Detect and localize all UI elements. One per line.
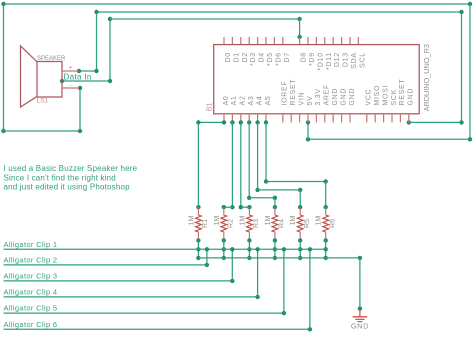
node junction A5 pin xyxy=(264,120,268,124)
node junction A3 pin xyxy=(247,120,251,124)
node junction R6 gnd bus xyxy=(324,256,328,260)
svg-text:Alligator Clip 3: Alligator Clip 3 xyxy=(4,271,58,280)
speaker LS1 body xyxy=(21,46,38,107)
wire clip 4 riser xyxy=(257,249,259,297)
node junction A0 pin xyxy=(222,120,226,124)
svg-text:Alligator Clip 6: Alligator Clip 6 xyxy=(4,320,58,329)
wire R6 bottom to gnd bus xyxy=(325,240,327,258)
wire 5V horizontal to right xyxy=(308,138,470,140)
svg-text:*D9: *D9 xyxy=(309,52,316,66)
svg-text:*D3: *D3 xyxy=(250,52,257,66)
wire A4 drop2 to R5 xyxy=(299,190,301,207)
svg-text:Alligator Clip 4: Alligator Clip 4 xyxy=(4,287,58,296)
node junction gnd bus corner xyxy=(358,256,362,260)
node junction A2 pin xyxy=(239,120,243,124)
svg-text:AREF: AREF xyxy=(324,84,331,105)
wire A5 drop xyxy=(265,122,267,181)
node junction 5V pin xyxy=(306,120,310,124)
wire Data In horizontal from speaker xyxy=(62,80,110,82)
svg-text:+: + xyxy=(69,66,73,72)
node junction A3 jog corner1 xyxy=(247,196,251,200)
svg-text:GND: GND xyxy=(351,321,369,330)
svg-text:*D11: *D11 xyxy=(326,52,333,70)
wire A4 drop xyxy=(257,122,259,189)
svg-text:I used a Basic Buzzer Speaker: I used a Basic Buzzer Speaker here xyxy=(4,164,138,173)
wire R1 bottom to gnd bus xyxy=(197,240,199,258)
svg-text:SPEAKER: SPEAKER xyxy=(37,56,66,62)
svg-text:D0: D0 xyxy=(225,52,232,62)
wire alligator clip 2 line xyxy=(4,264,207,266)
node junction speaker plus pin xyxy=(77,69,81,73)
arduino bottom pin stubs A0-GND xyxy=(223,114,225,123)
node junction clip 6 riser top xyxy=(308,247,312,251)
node junction clip 5 end xyxy=(282,311,286,315)
node junction speaker-minus drop xyxy=(78,129,82,133)
svg-text:MISO: MISO xyxy=(374,85,381,106)
wire A4 jog xyxy=(258,189,301,191)
node junction A4 jog corner1 xyxy=(255,188,259,192)
svg-text:A0: A0 xyxy=(223,96,230,106)
node junction top-left xyxy=(1,2,5,6)
wire A2 drop xyxy=(240,122,242,207)
svg-text:SCL: SCL xyxy=(359,52,366,68)
wire A3 jog xyxy=(249,197,275,199)
svg-text:GND: GND xyxy=(408,88,415,106)
svg-text:A5: A5 xyxy=(265,96,272,106)
svg-text:D12: D12 xyxy=(334,52,341,67)
node junction clip 3 riser top xyxy=(230,247,234,251)
wire clip 2 riser xyxy=(206,249,208,265)
svg-text:VCC: VCC xyxy=(366,89,373,106)
wire A3 drop2 to R4 xyxy=(274,198,276,207)
svg-text:R4: R4 xyxy=(279,219,286,228)
svg-text:D2: D2 xyxy=(242,52,249,62)
resistor R1 xyxy=(196,205,200,209)
wire A5 drop2 to R6 xyxy=(325,182,327,208)
node junction A5 jog corner1 xyxy=(264,179,268,183)
svg-text:SDA: SDA xyxy=(351,52,358,68)
node junction top-right xyxy=(468,2,472,6)
wire Data In vertical xyxy=(109,19,111,81)
wire alligator clip 6 line xyxy=(4,328,310,330)
svg-text:and just edited it using Photo: and just edited it using Photoshop xyxy=(4,183,131,192)
svg-text:*D5: *D5 xyxy=(267,52,274,66)
wire net2 right vertical xyxy=(461,12,463,122)
wire clip 5 riser xyxy=(283,249,285,313)
wire R3 bottom to gnd bus xyxy=(248,240,250,258)
wire A1 jog to R2 xyxy=(224,206,233,208)
svg-text:A3: A3 xyxy=(248,96,255,106)
ground xyxy=(359,309,361,317)
node junction A1 pin xyxy=(230,120,234,124)
resistor R2 xyxy=(222,205,226,209)
wire clip 3 riser xyxy=(231,249,233,281)
node junction A4 pin xyxy=(255,120,259,124)
node junction A2 drop corner xyxy=(239,205,243,209)
wire clip 6 riser xyxy=(309,249,311,329)
wire net1 right vertical xyxy=(469,4,471,139)
node junction speaker plus corner xyxy=(94,69,98,73)
node junction R4 clip bus xyxy=(273,247,277,251)
svg-text:A2: A2 xyxy=(240,96,247,106)
node junction R2 gnd bus xyxy=(222,256,226,260)
node junction A1 drop corner xyxy=(230,205,234,209)
node junction right-bottom corner xyxy=(468,137,472,141)
svg-text:R3: R3 xyxy=(253,219,260,228)
svg-text:*D6: *D6 xyxy=(275,52,282,66)
wire A0 jog xyxy=(198,121,224,123)
wire alligator clip 3 line xyxy=(4,280,233,282)
svg-text:GND: GND xyxy=(349,88,356,106)
svg-text:Since I can't find the right k: Since I can't find the right kind xyxy=(4,173,116,182)
wire alligator clip 1 line xyxy=(4,248,326,250)
resistor R6 xyxy=(324,205,328,209)
svg-text:IOREF: IOREF xyxy=(282,81,289,106)
svg-text:VIN: VIN xyxy=(298,92,305,106)
node junction R5 clip bus xyxy=(298,247,302,251)
wire R4 bottom to gnd bus xyxy=(274,240,276,258)
svg-text:MOSI: MOSI xyxy=(382,85,389,106)
svg-text:A4: A4 xyxy=(256,96,263,106)
svg-text:1M: 1M xyxy=(290,215,297,225)
speaker pin - stub xyxy=(62,87,79,89)
svg-text:1M: 1M xyxy=(239,215,246,225)
wire speaker plus vertical xyxy=(96,12,98,71)
node junction A5 jog corner2 xyxy=(324,179,328,183)
svg-text:1M: 1M xyxy=(265,215,272,225)
svg-text:B1: B1 xyxy=(207,103,214,112)
svg-text:Alligator Clip 1: Alligator Clip 1 xyxy=(4,240,58,249)
node junction data-in at speaker xyxy=(60,79,64,83)
wire net2 second horizontal xyxy=(97,11,462,13)
wire GND pin horizontal xyxy=(409,121,462,123)
svg-text:D13: D13 xyxy=(343,52,350,67)
svg-text:LS1: LS1 xyxy=(37,98,49,105)
wire gnd bus vertical xyxy=(359,258,361,309)
node junction net2 bottom corner xyxy=(459,120,463,124)
node junction data-in corner3 xyxy=(297,17,301,21)
wire net1 left vertical xyxy=(3,4,5,131)
svg-text:SCK: SCK xyxy=(391,89,398,106)
node junction net2 left corner xyxy=(94,10,98,14)
node junction R1 gnd bus xyxy=(196,256,200,260)
wire A0 drop to R1 xyxy=(197,122,199,207)
node junction R2 clip bus xyxy=(222,247,226,251)
svg-text:R1: R1 xyxy=(202,219,209,228)
node junction clip 4 riser top xyxy=(255,247,259,251)
svg-text:GND: GND xyxy=(340,88,347,106)
wire alligator clip 4 line xyxy=(4,296,258,298)
svg-text:3.3V: 3.3V xyxy=(315,88,322,105)
svg-text:GND: GND xyxy=(332,88,339,106)
node junction net2 right corner xyxy=(459,10,463,14)
node junction D8 pin xyxy=(297,35,301,39)
node junction A4 jog corner2 xyxy=(298,188,302,192)
arduino top pin stubs D0-SCL xyxy=(223,37,225,45)
svg-text:Alligator Clip 2: Alligator Clip 2 xyxy=(4,255,58,264)
wire Data In horizontal to D8 xyxy=(110,18,300,20)
svg-text:1M: 1M xyxy=(316,215,323,225)
node junction clip 2 riser top xyxy=(205,247,209,251)
wire net1 top horizontal xyxy=(4,3,471,5)
svg-text:R5: R5 xyxy=(304,219,311,228)
svg-text:D7: D7 xyxy=(284,52,291,62)
node junction R4 gnd bus xyxy=(273,256,277,260)
node junction clip 4 end xyxy=(255,295,259,299)
resistor R3 xyxy=(247,205,251,209)
wire net1 bottom-left horizontal xyxy=(4,130,81,132)
wire R2 bottom to gnd bus xyxy=(223,240,225,258)
resistor R4 xyxy=(273,205,277,209)
wire A2 jog to R3 xyxy=(241,206,250,208)
node junction left-bottom corner xyxy=(1,129,5,133)
node junction clip 6 end xyxy=(308,327,312,331)
node junction R3 clip bus xyxy=(247,247,251,251)
node junction data-in corner2 xyxy=(108,17,112,21)
wire A5 jog xyxy=(266,181,326,183)
wire A1 drop xyxy=(231,122,233,207)
node junction R5 gnd bus xyxy=(298,256,302,260)
arduino module B1 outline xyxy=(214,45,420,114)
svg-text:A1: A1 xyxy=(231,96,238,106)
wire speaker minus vertical xyxy=(79,88,81,131)
svg-text:R2: R2 xyxy=(227,219,234,228)
svg-text:ARDUINO_UNO_R3: ARDUINO_UNO_R3 xyxy=(422,44,431,111)
node junction A3 jog corner2 xyxy=(273,196,277,200)
node junction R1 clip bus xyxy=(196,247,200,251)
node junction arduino GND pin xyxy=(407,120,411,124)
svg-text:5V: 5V xyxy=(307,96,314,106)
svg-text:Data In: Data In xyxy=(64,73,92,82)
svg-text:1M: 1M xyxy=(188,215,195,225)
node junction 5V corner xyxy=(306,137,310,141)
svg-text:D4: D4 xyxy=(259,52,266,62)
node junction A0 jog corner xyxy=(196,120,200,124)
svg-text:1M: 1M xyxy=(214,215,221,225)
node junction gnd symbol xyxy=(358,306,362,310)
svg-text:Alligator Clip 5: Alligator Clip 5 xyxy=(4,304,58,313)
svg-text:*D10: *D10 xyxy=(317,52,324,70)
wire R5 bottom to gnd bus xyxy=(299,240,301,258)
wire 5V pin drop xyxy=(307,122,309,139)
wire speaker plus horizontal xyxy=(79,70,97,72)
svg-text:-: - xyxy=(70,83,72,89)
node junction clip 2 end xyxy=(205,263,209,267)
node junction clip 5 riser top xyxy=(282,247,286,251)
node junction data-in corner1 xyxy=(108,79,112,83)
svg-text:D8: D8 xyxy=(301,52,308,62)
wire Data In drop to D8 pin xyxy=(299,19,301,37)
wire alligator clip 5 line xyxy=(4,312,284,314)
resistor R5 xyxy=(298,205,302,209)
node junction clip 3 end xyxy=(230,279,234,283)
svg-text:RESET: RESET xyxy=(290,79,297,106)
node junction R3 gnd bus xyxy=(247,256,251,260)
svg-text:R6: R6 xyxy=(329,219,336,228)
wire gnd bus horizontal xyxy=(198,257,360,259)
speaker pin + stub xyxy=(62,70,79,72)
svg-text:D1: D1 xyxy=(233,52,240,62)
svg-text:RESET: RESET xyxy=(399,79,406,106)
node junction speaker minus pin xyxy=(78,86,82,90)
node junction R6 clip bus xyxy=(324,247,328,251)
wire A3 drop xyxy=(248,122,250,197)
